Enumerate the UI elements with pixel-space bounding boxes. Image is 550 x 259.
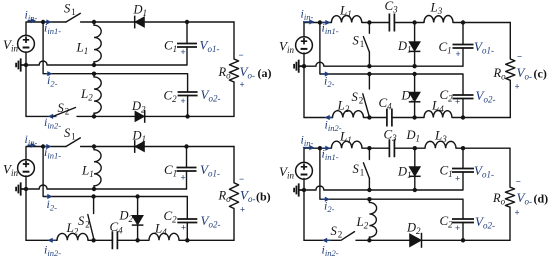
svg-text:−: − — [516, 177, 521, 187]
node C2 bottom (a) — [185, 114, 189, 118]
node D1 bottom (d) — [413, 188, 417, 192]
svg-text:−: − — [239, 174, 244, 184]
inductor L1 (d) — [331, 141, 362, 148]
node junction iin1 (a) — [41, 20, 45, 24]
current arrow i2 (b) — [46, 194, 53, 199]
wire C1 top lead (b) — [186, 147, 188, 168]
node L1 top (a) — [92, 20, 96, 24]
svg-text:2: 2 — [65, 107, 70, 117]
inductor L2 (a) — [94, 74, 101, 117]
wire D2 top lead (b) — [137, 197, 139, 216]
wire node2 vertical and rail2 to C2 (a) — [43, 22, 188, 92]
node D2 bottom (c) — [412, 115, 416, 119]
current arrow iin1 (a) — [45, 19, 52, 24]
diode D1 (a) — [135, 16, 145, 29]
svg-text:S: S — [353, 34, 360, 48]
svg-text:+: + — [181, 223, 186, 233]
diode D1 (b) — [135, 140, 145, 153]
capacitor C1 (a) — [177, 44, 197, 48]
wire C2 bottom lead (b) — [186, 223, 188, 241]
capacitor C1 (d) — [452, 169, 474, 173]
node S2 bottom (c) — [367, 115, 371, 119]
wire Vin bottom left branch (c) — [303, 53, 305, 118]
wire node2 vertical and rail2 to C2 (c) — [320, 23, 463, 96]
node C1 top (c) — [461, 20, 465, 24]
node D2 top (c) — [412, 72, 416, 76]
node ground junction (a) — [24, 63, 28, 67]
resistor Ro (b) — [229, 183, 238, 209]
capacitor C2 (a) — [178, 92, 198, 96]
wire L2 to C4 (b) — [88, 239, 112, 241]
wire C1 top lead (c) — [462, 23, 464, 45]
svg-text:(a): (a) — [258, 66, 272, 80]
wire Vin top to S1 (a) — [26, 22, 66, 36]
switch S1 blade (d) — [363, 163, 369, 178]
wire L4 to right corner (c) — [452, 117, 510, 119]
wire L2 to C4 (c) — [364, 117, 387, 119]
svg-text:S: S — [64, 1, 71, 15]
diode D1 (d) — [409, 167, 421, 177]
svg-text:1: 1 — [360, 39, 365, 49]
svg-text:+: + — [515, 208, 520, 218]
svg-text:+: + — [455, 97, 460, 107]
resistor Ro (d) — [505, 187, 514, 207]
wire D1 bottom lead (c) — [414, 51, 416, 66]
wire node2 vertical and rail2 to C2 (d) — [320, 148, 463, 219]
wire L1 to C3 (d) — [362, 147, 389, 149]
wire S1 lower stub (c) — [368, 52, 370, 66]
wire right branch top (c) — [509, 23, 511, 60]
wire C2 bottom lead (c) — [462, 99, 464, 118]
inductor L4 (c) — [424, 110, 452, 117]
wire D2 bottom lead (c) — [414, 102, 416, 118]
capacitor C1 (b) — [177, 168, 197, 172]
diode D2 (d) — [410, 233, 422, 248]
wire right branch bottom (a) — [233, 82, 235, 116]
node C2 bottom (d) — [461, 238, 465, 242]
switch S2 blade (a) — [53, 108, 76, 117]
inductor L2 (b) — [57, 233, 88, 240]
capacitor C4 (c) — [387, 109, 392, 127]
inductor L4 (b) — [149, 233, 179, 240]
node S2 top (c) — [367, 72, 371, 76]
node S2 bottom (b) — [91, 238, 95, 242]
current arrow i2 (a) — [46, 71, 53, 76]
wire C1 bottom lead (c) — [462, 48, 464, 66]
current arrow iin1 (c) — [322, 20, 331, 25]
node C2 bottom (c) — [461, 115, 465, 119]
wire bottom rail right (a) — [77, 115, 234, 117]
diode D2 (c) — [409, 92, 421, 102]
wire D1 top lead (d) — [414, 148, 416, 166]
resistor Ro (c) — [506, 59, 515, 80]
node S1 bottom (c) — [367, 64, 371, 68]
wire S1 upper stub (d) — [368, 148, 370, 159]
switch S2 blade (b) — [88, 215, 94, 239]
svg-text:2: 2 — [85, 220, 90, 230]
ground rail with hop (d) — [304, 186, 463, 190]
current arrow iin2 (a) — [48, 114, 57, 119]
diode D1 (c) — [409, 42, 421, 52]
node S1 bottom (d) — [367, 188, 371, 192]
svg-text:2: 2 — [359, 96, 364, 106]
capacitor C3 (d) — [389, 139, 394, 157]
node C1 top (d) — [461, 146, 465, 150]
node S2 top (b) — [91, 194, 95, 198]
node junction iin1 (b) — [41, 144, 45, 148]
wire C1 bottom lead (d) — [462, 172, 464, 190]
diode D2 (b) — [132, 215, 144, 225]
wire bottom rail left (a) — [26, 115, 52, 117]
node L1 top (b) — [92, 144, 96, 148]
svg-text:+: + — [455, 174, 460, 184]
inductor L3 (d) — [425, 141, 456, 148]
svg-text:−: − — [239, 50, 244, 60]
inductor L1 (a) — [94, 22, 101, 65]
node ground junction (c) — [302, 64, 306, 68]
capacitor C3 (c) — [389, 14, 394, 32]
node D1 bottom (c) — [412, 64, 416, 68]
node L1 bottom (a) — [92, 63, 96, 67]
switch S1 blade (c) — [363, 37, 369, 52]
node D1 top (c) — [412, 20, 416, 24]
wire node2 vertical and rail2 to C2 (b) — [43, 147, 187, 220]
svg-text:+: + — [181, 96, 186, 106]
wire D1 bottom lead (d) — [414, 176, 416, 190]
voltage source Vin (a) — [18, 35, 35, 52]
wire bottom rail right (d) — [356, 239, 510, 241]
switch S2 blade (c) — [363, 94, 370, 117]
wire S2 upper stub (b) — [93, 197, 95, 214]
current arrow iin2 (b) — [48, 238, 57, 243]
svg-text:−: − — [517, 52, 522, 62]
svg-text:+: + — [456, 49, 461, 59]
wire S1 lower stub (d) — [368, 178, 370, 190]
wire S1 upper stub (c) — [368, 23, 370, 34]
node L2 bottom (d) — [367, 238, 371, 242]
svg-text:(d): (d) — [534, 192, 549, 206]
wire C2 bottom lead (a) — [187, 96, 189, 117]
wire L3 to right corner (d) — [456, 147, 510, 149]
switch S2 blade (d) — [341, 232, 355, 241]
wire C2 bottom lead (d) — [462, 223, 464, 241]
wire C3 to L3 (d) — [394, 147, 425, 149]
node ground junction (b) — [24, 187, 28, 191]
wire right branch bottom (d) — [509, 207, 511, 240]
svg-text:S: S — [58, 101, 65, 115]
svg-text:+: + — [240, 205, 245, 215]
svg-text:1: 1 — [360, 168, 365, 178]
svg-text:2: 2 — [338, 230, 343, 240]
svg-text:+: + — [455, 223, 460, 233]
svg-text:+: + — [181, 173, 186, 183]
capacitor C2 (b) — [177, 219, 197, 223]
wire C1 bottom lead (a) — [186, 47, 188, 65]
node L2 top (d) — [367, 197, 371, 201]
current arrow iin (d) — [303, 145, 315, 150]
wire C4 to L4 (c) — [392, 117, 424, 119]
inductor L2 (c) — [333, 110, 364, 117]
wire bottom rail left (d) — [304, 239, 340, 241]
node ground junction (d) — [302, 188, 306, 192]
wire L3 to right corner (c) — [453, 22, 510, 24]
wire bottom rail left (c) — [304, 117, 333, 119]
current arrow i2 (d) — [322, 197, 331, 202]
ground (a) — [16, 58, 26, 71]
current arrow iin1 (d) — [322, 146, 331, 151]
node C2 bottom (b) — [185, 238, 189, 242]
node D1 top (d) — [413, 146, 417, 150]
ground rail with hop (b) — [26, 185, 187, 189]
wire right branch top (a) — [233, 22, 235, 59]
node junction iin1 (c) — [318, 20, 322, 24]
svg-text:(b): (b) — [256, 190, 271, 204]
resistor Ro (a) — [229, 59, 238, 82]
svg-text:+: + — [240, 80, 245, 90]
node junction iin1 (d) — [318, 146, 322, 150]
wire C1 top lead (a) — [186, 22, 188, 44]
wire bottom rail left (b) — [26, 239, 57, 241]
node S1 top (d) — [367, 146, 371, 150]
svg-text:1: 1 — [71, 7, 76, 17]
node C1 top (b) — [184, 144, 188, 148]
svg-text:(c): (c) — [534, 67, 547, 81]
wire D1 top lead (c) — [414, 23, 416, 42]
capacitor C1 (c) — [453, 45, 474, 49]
inductor L2 (d) — [369, 199, 376, 240]
svg-text:S: S — [353, 162, 360, 176]
capacitor C2 (c) — [453, 95, 474, 99]
svg-text:S: S — [78, 214, 85, 228]
switch S1 blade (a) — [66, 13, 80, 22]
wire Vin bottom left branch (b) — [25, 176, 27, 240]
wire Vin bottom left branch (a) — [25, 52, 27, 116]
capacitor C4 (b) — [112, 231, 117, 249]
node C1 top (a) — [185, 20, 189, 24]
current arrow iin1 (b) — [45, 144, 52, 149]
wire L1 to C3 (c) — [362, 22, 390, 24]
ground (d) — [294, 183, 304, 196]
node D2 top (b) — [135, 194, 139, 198]
voltage source Vin (c) — [296, 37, 313, 54]
wire Vin top to L1 (d) — [304, 148, 331, 162]
inductor L3 (c) — [424, 15, 453, 22]
current arrow iin (a) — [28, 18, 37, 23]
node L1 bottom (b) — [92, 187, 96, 191]
voltage source Vin (b) — [18, 160, 35, 177]
wire right branch bottom (c) — [509, 80, 511, 117]
inductor L1 (b) — [94, 147, 101, 190]
wire right branch bottom (b) — [233, 209, 235, 241]
current arrow iin2 (c) — [325, 115, 334, 120]
wire Vin top to S1 (b) — [26, 147, 66, 160]
voltage source Vin (d) — [296, 162, 313, 179]
ground (b) — [16, 182, 26, 195]
diode D2 (a) — [135, 110, 145, 123]
current arrow iin (c) — [303, 19, 315, 24]
svg-text:+: + — [181, 47, 186, 57]
svg-text:+: + — [515, 82, 520, 92]
node L2 bottom (a) — [92, 114, 96, 118]
svg-text:S: S — [64, 126, 71, 140]
current arrow i2 (c) — [322, 71, 331, 76]
wire D2 bottom lead (b) — [137, 225, 139, 240]
wire C4 to L4 (b) — [117, 239, 149, 241]
ground rail with hop (a) — [26, 61, 187, 65]
wire C1 top lead (d) — [462, 148, 464, 168]
ground rail with hop (c) — [304, 62, 463, 66]
inductor L1 (c) — [331, 15, 361, 22]
wire right branch top (d) — [509, 148, 511, 187]
svg-text:S: S — [352, 90, 359, 104]
wire L4 to right corner (b) — [179, 239, 234, 241]
wire C3 to L3 (c) — [394, 22, 424, 24]
svg-text:S: S — [331, 224, 338, 238]
current arrow iin2 (d) — [322, 238, 331, 243]
capacitor C2 (d) — [452, 219, 474, 223]
svg-text:1: 1 — [71, 131, 76, 141]
wire S1 to right corner through D1 (b) — [81, 146, 234, 148]
current arrow iin (b) — [28, 143, 37, 148]
wire S1 to right corner through D1 (a) — [81, 21, 234, 23]
wire C1 bottom lead (b) — [186, 171, 188, 189]
node D2 bottom (b) — [135, 238, 139, 242]
wire right branch top (b) — [233, 147, 235, 183]
wire D2 top lead (c) — [414, 74, 416, 92]
node L2 top (a) — [92, 72, 96, 76]
ground (c) — [294, 60, 304, 73]
wire S2 upper stub (c) — [368, 74, 370, 89]
wire Vin top to L1 (c) — [304, 23, 331, 38]
wire Vin bottom left branch (d) — [303, 179, 305, 241]
switch S1 blade (b) — [66, 138, 80, 147]
node S1 top (c) — [367, 20, 371, 24]
